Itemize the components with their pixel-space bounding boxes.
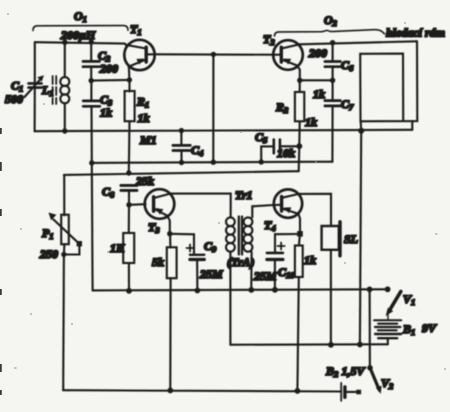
wire P1 down to bottom rail [62,255,65,391]
coil L1 core dashes [53,76,57,104]
label C1 [11,79,23,94]
label Tr1 [235,188,253,202]
capacitor C10 25M electrolytic [267,243,285,290]
wire rail 4 [93,289,388,290]
svg-text:Tr1: Tr1 [235,188,253,202]
label P1 [42,226,54,241]
node dot T2 emitter [297,78,302,83]
svg-text:1k: 1k [313,87,325,101]
capacitor C4 [173,131,190,163]
label C4 [191,143,203,158]
node dot coil bottom [62,128,67,133]
wire rail 2 [92,162,333,163]
speaker SL [322,222,340,345]
potentiometer P1 250 [49,175,83,255]
node dot base T1 left [89,78,94,83]
wire C3 bottom long vertical to lower rail [92,106,93,290]
node dot C10 bottom [272,287,278,293]
label C6 [341,58,354,73]
node dot 1k bottom [295,388,301,394]
svg-text:25M: 25M [199,267,223,281]
label M1 [139,133,157,147]
svg-text:25M: 25M [253,269,277,283]
wire rail 3 [64,171,299,175]
label C3 [100,93,113,108]
wire emitter to C10 [275,234,300,253]
svg-text:(TrA): (TrA) [227,255,255,269]
label O1 [74,9,87,24]
transistor T2 [273,40,303,80]
label 1K [110,241,125,255]
wire T1 to T2 link [154,53,273,56]
transistor T3 [145,189,175,234]
node dot 5k bottom [167,388,173,394]
switch V1 [386,292,401,320]
label C5 [255,130,268,145]
label B2 1,5V [325,364,366,379]
resistor R1 1k [125,80,135,173]
node dot Tr1 secondary bottom [248,287,254,293]
capacitor C7 [325,80,341,161]
wire emitter to C9 [170,234,194,255]
battery B2 1.5V [341,383,361,401]
node dot V2 feed [367,287,373,293]
transformer Tr1 [226,205,274,345]
wire left vertical C1 branch [34,42,36,131]
wire link vertical down [212,54,214,162]
label T1 [130,22,142,37]
node dot link bottom [211,160,216,165]
label hledaci ram [386,26,445,40]
svg-text:1k: 1k [305,115,317,129]
node dot C7 top [330,78,335,83]
label B1 9V [402,321,437,337]
node dot long vertical bottom [357,342,363,348]
label 200 C2 [99,62,118,76]
svg-text:1K: 1K [110,241,125,255]
node dot C4 bottom [179,160,184,165]
svg-text:500: 500 [5,92,23,106]
wire base node horizontal [91,79,129,82]
capacitor C9 25M electrolytic [187,245,205,291]
svg-text:200: 200 [99,62,118,76]
node dot P1 wiper tie [61,252,66,257]
label 200 C6 [308,46,327,60]
label TrA [227,255,255,269]
svg-text:10k: 10k [277,146,295,160]
label 1k C7 [313,87,325,101]
svg-text:1k: 1k [138,111,150,125]
node dot rail2 left [89,160,94,165]
wire emitter node horizontal [300,79,333,81]
svg-text:200: 200 [308,46,327,60]
node dot T3 emitter [167,231,172,236]
node dot SL bottom [328,342,334,348]
svg-text:1,5V: 1,5V [342,364,366,378]
label 25M C9 [199,267,223,281]
node dot link [211,52,216,57]
label O2 [324,13,338,28]
node dot C8 top [126,170,131,175]
label V1 [403,292,415,307]
label T4 [264,218,276,233]
label 1k R2 [305,115,317,129]
label R1 [136,95,149,110]
svg-text:5k: 5k [152,255,164,269]
svg-text:hledací rám: hledací rám [386,26,445,40]
node dot R2 C5 junction [296,143,302,149]
capacitor C8 25k [121,185,137,204]
label 10k [277,146,295,160]
label C10 [278,265,295,280]
capacitor C6 [325,43,341,81]
label R2 [275,100,289,115]
node dot C5 left [259,159,264,164]
wire T3 collector to transformer [170,194,230,218]
capacitor C1 variable 500 [25,75,45,97]
wire tank top [35,42,125,43]
wire rail 5 battery minus [230,343,387,346]
switch V2 [367,289,381,394]
label C8 [102,185,115,200]
node dot T3 base [126,202,131,207]
wire long vertical frame to battery rail [360,131,361,345]
label 1k C3 [100,106,112,120]
node dot C9 bottom [195,288,201,294]
wire T2 collector to frame top [300,41,417,44]
label 200uH [60,28,96,42]
svg-text:250: 250 [39,247,58,261]
label 5k [152,255,164,269]
label SL [344,232,358,246]
label T3 [148,220,160,235]
svg-text:1k: 1k [304,253,316,267]
svg-text:9V: 9V [422,321,437,335]
label T2 [263,32,275,47]
svg-text:SL: SL [344,232,358,246]
node dot frame tap [358,128,364,134]
svg-text:M1: M1 [139,133,157,147]
resistor 5k [167,234,177,390]
node dot 1K bottom [126,288,132,294]
resistor 1k T4 emitter [295,234,303,391]
label C9 [204,239,217,254]
label 1k R1 [138,111,150,125]
transistor T1 [124,40,154,80]
label 25k [135,174,154,188]
search frame loop [360,41,417,130]
label 1k T4 [304,253,316,267]
scan edge marks left [0,128,2,395]
label 500 [5,92,23,106]
label L1 [41,83,54,98]
capacitor C3 1k [83,81,100,107]
wire T3 base [129,203,146,206]
label 25M C10 [253,269,277,283]
wire T4 collector to speaker [299,194,331,226]
svg-text:200µH: 200µH [60,28,96,42]
svg-text:1k: 1k [100,106,112,120]
battery B1 9V [374,320,401,344]
node dot tank top left [62,40,67,45]
resistor R2 1k [295,80,304,146]
label V2 [381,376,394,391]
capacitor C2 200 [83,42,100,80]
inductor coil of L1 [60,42,69,131]
bracket O1 [33,26,128,31]
wire rail 6 bottom [63,390,341,391]
bracket O2 [275,30,385,36]
node dot C6 top [330,40,335,45]
capacitor C5 10k [261,140,299,162]
label 250 [39,247,58,261]
resistor 1K T3 base bias [123,205,134,291]
node dot C4 top [179,128,184,133]
node dot T4 emitter [297,231,303,237]
label C7 [341,97,354,112]
node dot T1 emitter/base junction [127,77,132,82]
label C2 [98,49,111,64]
node dot V1 terminal [385,286,391,292]
wire main rail 1 [35,130,413,131]
node dot tank top right [89,39,94,44]
wire R2 node down to rail 3 [298,146,301,171]
transistor T4 [274,189,302,233]
